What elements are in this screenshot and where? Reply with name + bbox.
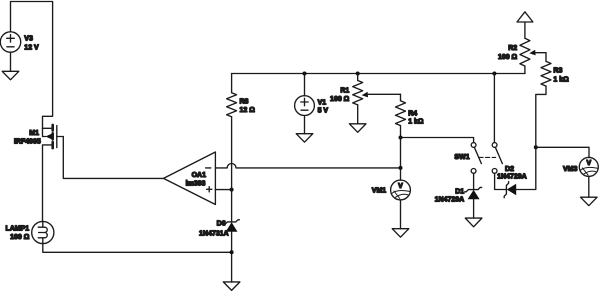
gate stub bbox=[57, 136, 64, 138]
svg-text:1 kΩ: 1 kΩ bbox=[408, 118, 424, 125]
ground under D1 bbox=[465, 218, 482, 227]
wire D1 to ground bbox=[473, 199, 475, 218]
ground under VM3 bbox=[581, 197, 598, 206]
wire main top bus bbox=[232, 73, 525, 75]
svg-text:R3: R3 bbox=[553, 67, 562, 74]
svg-text:R4: R4 bbox=[408, 110, 417, 117]
wire R3 down to node bbox=[536, 86, 546, 147]
svg-text:1 kΩ: 1 kΩ bbox=[553, 76, 569, 83]
wire LAMP1 to bottom bus bbox=[43, 244, 232, 253]
wire bus to SW1 pole B bbox=[493, 74, 495, 143]
wire gate to op-amp output bbox=[63, 137, 163, 179]
svg-text:100 Ω: 100 Ω bbox=[10, 234, 30, 241]
node R3/D2/VM3 junction bbox=[534, 145, 538, 149]
voltage source V1 bbox=[295, 96, 315, 116]
ground under V1 bbox=[296, 134, 313, 143]
svg-text:5 V: 5 V bbox=[318, 108, 329, 115]
svg-text:D1: D1 bbox=[455, 188, 464, 195]
ground under VM1 bbox=[392, 229, 409, 238]
svg-text:D6: D6 bbox=[217, 220, 226, 227]
node + input junction bbox=[230, 188, 234, 192]
wire R1 wiper to R4 bbox=[400, 94, 402, 101]
svg-text:V: V bbox=[398, 183, 403, 190]
wire R2 bottom to bus bbox=[524, 66, 526, 74]
switch SW1 pole A bbox=[471, 143, 476, 148]
potentiometer R2 bbox=[520, 38, 530, 66]
svg-text:M1: M1 bbox=[29, 130, 39, 137]
svg-text:V3: V3 bbox=[24, 35, 33, 42]
node R4/SW1 junction bbox=[399, 136, 403, 140]
switch SW1 pole B bbox=[492, 143, 497, 148]
transistor M1 (PMOS IRF4905) bbox=[43, 125, 64, 221]
svg-text:12 Ω: 12 Ω bbox=[240, 107, 256, 114]
svg-text:1N4731A: 1N4731A bbox=[199, 230, 229, 237]
node bus-V1 bbox=[303, 72, 307, 76]
switch link dashed bbox=[479, 156, 496, 158]
resistor R4 bbox=[396, 101, 406, 126]
channel bar segments bbox=[51, 125, 54, 148]
wire R8 column (bus corner down through hop to D6) bbox=[231, 74, 233, 222]
diode D2 (zener 1N4729A) bbox=[504, 182, 508, 198]
resistor R8 bbox=[227, 93, 237, 117]
svg-text:LAMP1: LAMP1 bbox=[5, 226, 29, 233]
svg-text:VM1: VM1 bbox=[372, 187, 387, 194]
wire D2 anode up to R3/VM3 node bbox=[516, 147, 536, 189]
wire SW1 pole A to D1 bbox=[473, 173, 475, 189]
lamp LAMP1 bbox=[32, 221, 54, 243]
svg-text:100 Ω: 100 Ω bbox=[330, 96, 350, 103]
op-amp OA1 bbox=[164, 152, 216, 205]
wire top-left bus from V3 to MOSFET drain column bbox=[11, 2, 53, 129]
wire R1 to ground bbox=[357, 105, 359, 124]
wire op-amp non-inverting input bbox=[215, 189, 231, 191]
resistor R3 bbox=[541, 61, 551, 86]
R2 wiper arrow bbox=[529, 50, 535, 56]
wire node to VM3 bbox=[536, 147, 589, 157]
body stub with arrow bbox=[43, 128, 46, 136]
wire bus to R1 bbox=[357, 74, 359, 81]
drain stub bottom bbox=[43, 145, 52, 221]
gate plate bbox=[56, 126, 58, 148]
wire V1 to ground bbox=[304, 116, 306, 134]
node bottom bus junction bbox=[230, 250, 234, 254]
svg-text:V1: V1 bbox=[318, 100, 327, 107]
svg-text:100 Ω: 100 Ω bbox=[498, 54, 518, 61]
diode D6 (zener 1N4731A) bbox=[224, 220, 240, 224]
wire VM1 to ground bbox=[400, 200, 402, 229]
wire VM3 to ground bbox=[588, 176, 590, 197]
svg-text:1N4729A: 1N4729A bbox=[497, 173, 527, 180]
wire R4 down through nodes to VM1 bbox=[400, 126, 402, 181]
svg-text:OA1: OA1 bbox=[192, 172, 207, 179]
wire D6 to bottom ground bbox=[231, 232, 233, 282]
svg-text:VM3: VM3 bbox=[563, 166, 578, 173]
wire bus to V1 bbox=[304, 74, 306, 96]
R1 wiper arrow bbox=[362, 92, 368, 98]
svg-text:R8: R8 bbox=[240, 99, 249, 106]
wire R2 wiper to R3 bbox=[545, 53, 547, 62]
node bus-SW1 bbox=[492, 72, 496, 76]
op-amp minus sign bbox=[206, 167, 211, 169]
svg-text:R2: R2 bbox=[508, 45, 517, 52]
voltmeter VM1 bbox=[391, 180, 411, 200]
svg-text:1N4729A: 1N4729A bbox=[435, 196, 465, 203]
diode D1 (zener 1N4729A) bbox=[465, 187, 482, 191]
svg-text:D2: D2 bbox=[505, 166, 514, 173]
wire SW1 pole B to D2 bbox=[495, 173, 507, 189]
power flag above R2 bbox=[517, 12, 533, 22]
wire R4 node to SW1 pole A bbox=[401, 138, 474, 143]
wire op-amp inverting input to R4/VM1 node with hop bbox=[215, 164, 400, 168]
node bus-R1 bbox=[356, 72, 360, 76]
svg-text:SW1: SW1 bbox=[454, 154, 469, 161]
ground under R1 bbox=[349, 124, 366, 133]
node inverting line junction bbox=[399, 166, 403, 170]
op-amp plus sign bbox=[207, 187, 212, 192]
svg-text:12 V: 12 V bbox=[24, 44, 39, 51]
svg-text:lm393: lm393 bbox=[186, 181, 206, 188]
potentiometer R1 bbox=[353, 81, 363, 105]
voltmeter VM3 bbox=[579, 157, 598, 176]
svg-text:V: V bbox=[586, 160, 591, 167]
ground bottom center bbox=[223, 282, 240, 291]
ground under V3 bbox=[2, 71, 19, 80]
svg-text:IRF4905: IRF4905 bbox=[14, 139, 41, 146]
wire V3 to ground bbox=[10, 52, 12, 71]
wire flag to R2 bbox=[524, 22, 526, 38]
svg-text:R1: R1 bbox=[340, 88, 349, 95]
source stub top bbox=[43, 127, 52, 129]
voltage source V3 bbox=[0, 32, 20, 52]
